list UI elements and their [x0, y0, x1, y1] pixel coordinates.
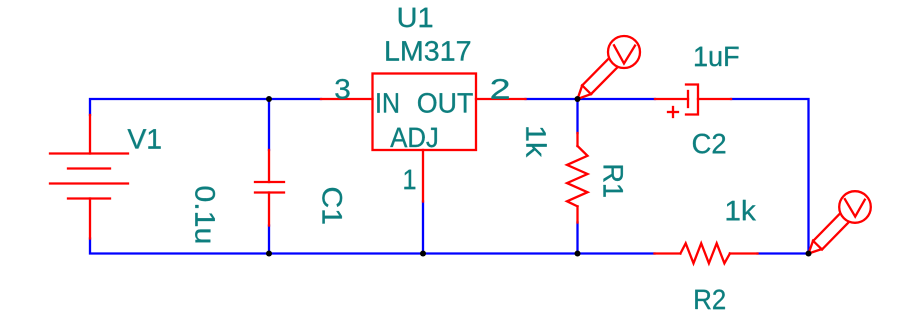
wire	[269, 252, 423, 254]
junction	[266, 251, 272, 257]
wire	[576, 99, 578, 133]
label V1	[128, 129, 161, 148]
junction	[420, 251, 426, 257]
pin label OUT	[418, 93, 473, 113]
value 1uF	[695, 47, 738, 67]
wire	[90, 239, 269, 254]
pin label IN	[377, 93, 398, 112]
pin 2 wire	[476, 98, 526, 100]
wire	[90, 99, 269, 115]
label U1	[399, 8, 432, 28]
capacitor C1	[255, 150, 284, 226]
battery V1	[50, 115, 128, 239]
wire	[268, 99, 270, 150]
resistor R1	[567, 133, 588, 223]
resistor R2	[655, 243, 758, 263]
pin 3 wire	[321, 98, 373, 100]
junction	[266, 96, 272, 102]
label LM317	[386, 41, 470, 61]
label R2	[695, 289, 725, 309]
junction	[575, 96, 581, 102]
label C1	[322, 188, 342, 224]
capacitor C2	[655, 85, 731, 118]
voltmeter probe Pr2	[809, 191, 871, 253]
pin 1 number	[404, 170, 415, 189]
junction	[806, 251, 812, 257]
wire	[423, 252, 578, 254]
wire	[578, 252, 655, 254]
wire	[268, 226, 270, 254]
pin 1 wire	[422, 150, 424, 202]
pin 3 number	[335, 79, 349, 99]
wire	[422, 202, 424, 254]
wire	[526, 98, 578, 100]
wire	[576, 223, 578, 254]
value 0.1u	[195, 187, 215, 243]
value 1k of R2	[727, 200, 756, 220]
wire	[578, 98, 656, 100]
label R1	[604, 166, 623, 197]
pin label ADJ	[390, 128, 437, 148]
wire	[269, 98, 321, 100]
wire	[731, 99, 809, 254]
voltmeter probe Pr1	[578, 36, 641, 99]
label C2	[693, 134, 725, 154]
junction	[575, 251, 581, 257]
IC U1 LM317 body	[373, 74, 477, 151]
pin 2 number	[491, 79, 508, 99]
wire	[758, 252, 809, 254]
value 1k of R1	[526, 127, 546, 157]
